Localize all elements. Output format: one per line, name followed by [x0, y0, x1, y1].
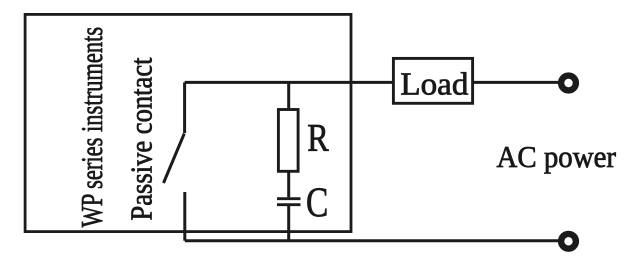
svg-text:Load: Load	[400, 65, 468, 101]
switch S bottom lead	[183, 192, 186, 241]
resistor R body	[278, 110, 298, 172]
svg-text:R: R	[307, 116, 329, 159]
switch S top lead	[183, 82, 186, 133]
wire: load to top terminal	[473, 81, 559, 84]
svg-text:AC power: AC power	[497, 140, 617, 174]
wire: top wire from switch to load	[185, 81, 393, 84]
instrument box (WP series instruments enclosure)	[25, 14, 351, 231]
switch S blade	[164, 134, 185, 184]
terminal: AC power bottom	[561, 234, 576, 249]
wire: bottom return wire to AC terminal	[185, 239, 559, 242]
resistor R top lead	[287, 82, 290, 108]
svg-text:Passive contact: Passive contact	[124, 57, 159, 220]
capacitor C top plate	[277, 197, 301, 200]
capacitor C bottom plate	[277, 203, 301, 206]
resistor R bottom lead	[287, 171, 290, 197]
load box	[393, 58, 472, 103]
svg-text:C: C	[306, 180, 328, 226]
capacitor C bottom lead	[287, 205, 290, 241]
svg-text:WP series instruments: WP series instruments	[74, 27, 109, 228]
terminal: AC power top	[561, 76, 576, 91]
